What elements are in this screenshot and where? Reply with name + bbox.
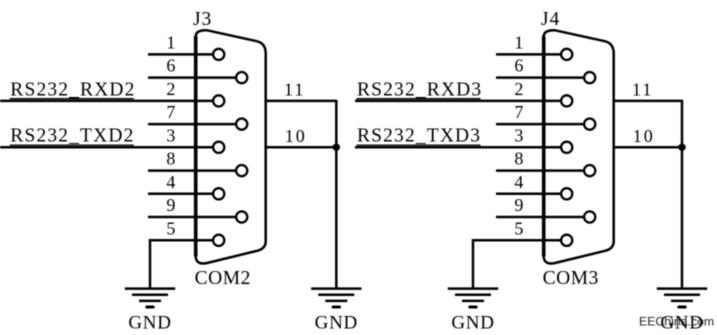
svg-text:1: 1 — [166, 33, 175, 53]
ground (shield) — [657, 289, 707, 307]
net label RS232_RXD2 — [10, 79, 136, 100]
svg-text:7: 7 — [514, 102, 523, 122]
ground (pin 5) — [125, 289, 175, 307]
connector J3 pin bar — [194, 36, 198, 256]
junction dot — [333, 144, 340, 151]
pin 7 circle — [584, 119, 595, 130]
net label RS232_TXD3 — [357, 126, 482, 147]
svg-text:11: 11 — [284, 80, 305, 100]
ground (pin 5) — [448, 289, 498, 307]
svg-text:4: 4 — [166, 172, 175, 192]
pin 2 wire — [355, 100, 561, 103]
pin 2 circle — [213, 95, 224, 106]
svg-text:10: 10 — [285, 126, 307, 146]
pin 8 wire — [496, 169, 584, 172]
svg-text:GND: GND — [315, 313, 358, 334]
svg-text:2: 2 — [166, 79, 175, 99]
pin 3 wire — [0, 146, 213, 149]
svg-text:9: 9 — [514, 195, 523, 215]
pin 1 wire — [496, 53, 561, 56]
pin 1 circle — [561, 49, 572, 60]
pin 3 circle — [213, 142, 224, 153]
pin 5 circle — [561, 235, 572, 246]
svg-text:EEChina.com: EEChina.com — [639, 315, 714, 329]
svg-text:RS232_TXD2: RS232_TXD2 — [10, 126, 134, 147]
pin 2 circle — [561, 95, 572, 106]
svg-text:6: 6 — [514, 56, 523, 76]
pin 11 wire — [614, 100, 682, 103]
junction dot — [678, 144, 685, 151]
svg-text:6: 6 — [166, 56, 175, 76]
svg-text:2: 2 — [514, 79, 523, 99]
svg-text:5: 5 — [514, 218, 523, 238]
pin 4 wire — [496, 193, 561, 196]
svg-text:GND: GND — [451, 313, 494, 334]
pin 8 circle — [584, 165, 595, 176]
wire shield riser — [681, 100, 684, 288]
svg-text:RS232_RXD2: RS232_RXD2 — [10, 79, 135, 100]
pin 4 circle — [561, 188, 572, 199]
svg-text:11: 11 — [632, 80, 653, 100]
wire pin 5 to ground — [149, 239, 152, 288]
svg-text:3: 3 — [166, 125, 175, 145]
svg-text:COM2: COM2 — [195, 268, 251, 289]
net label RS232_RXD3 — [357, 79, 483, 100]
svg-text:8: 8 — [514, 149, 523, 169]
pin 10 wire — [614, 146, 682, 149]
ground (shield) — [311, 289, 361, 307]
svg-text:1: 1 — [514, 33, 523, 53]
svg-text:8: 8 — [166, 149, 175, 169]
svg-text:J4: J4 — [541, 9, 560, 30]
pin 6 wire — [148, 76, 236, 79]
pin 7 wire — [148, 123, 236, 126]
svg-text:10: 10 — [633, 126, 655, 146]
pin 9 circle — [236, 211, 247, 222]
pin 4 circle — [213, 188, 224, 199]
pin 7 wire — [496, 123, 584, 126]
svg-text:RS232_RXD3: RS232_RXD3 — [357, 79, 482, 100]
svg-text:5: 5 — [166, 218, 175, 238]
pin 6 circle — [236, 72, 247, 83]
svg-text:9: 9 — [166, 195, 175, 215]
pin 9 circle — [584, 211, 595, 222]
pin 1 wire — [148, 53, 213, 56]
pin 3 wire — [355, 146, 561, 149]
pin 2 wire — [0, 100, 213, 103]
connector J3 body — [196, 30, 266, 263]
pin 5 wire — [472, 239, 561, 242]
svg-text:GND: GND — [128, 313, 171, 334]
svg-text:7: 7 — [166, 102, 175, 122]
pin 8 circle — [236, 165, 247, 176]
wire shield riser — [335, 100, 338, 288]
pin 5 wire — [149, 239, 213, 242]
pin 5 circle — [213, 235, 224, 246]
svg-text:4: 4 — [514, 172, 523, 192]
pin 7 circle — [236, 119, 247, 130]
pin 1 circle — [213, 49, 224, 60]
pin 9 wire — [148, 216, 236, 219]
connector J4 pin bar — [542, 36, 546, 256]
pin 10 wire — [266, 146, 337, 149]
pin 3 circle — [561, 142, 572, 153]
pin 6 wire — [496, 76, 584, 79]
pin 6 circle — [584, 72, 595, 83]
svg-text:COM3: COM3 — [543, 268, 599, 289]
svg-text:3: 3 — [514, 125, 523, 145]
connector J4 body — [544, 30, 614, 263]
pin 4 wire — [148, 193, 213, 196]
svg-text:RS232_TXD3: RS232_TXD3 — [357, 126, 481, 147]
svg-text:J3: J3 — [193, 9, 212, 30]
wire pin 5 to ground — [472, 239, 475, 288]
pin 9 wire — [496, 216, 584, 219]
pin 11 wire — [266, 100, 337, 103]
net label RS232_TXD2 — [10, 126, 135, 147]
pin 8 wire — [148, 169, 236, 172]
